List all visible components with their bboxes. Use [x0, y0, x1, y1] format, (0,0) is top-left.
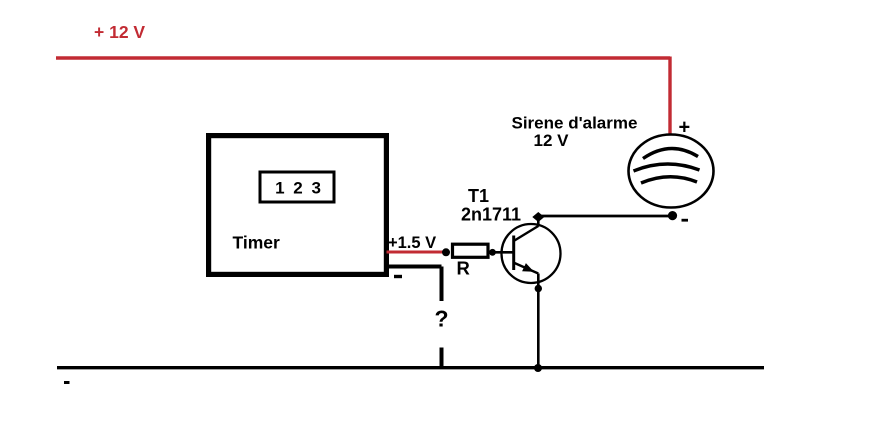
- wire emitter to ground rail: [537, 274, 540, 369]
- node collector junction: [532, 212, 544, 222]
- siren LS1: [629, 135, 714, 208]
- svg-text:R: R: [457, 258, 470, 279]
- label - (rail): [64, 381, 70, 384]
- svg-text:+1.5 V: +1.5 V: [388, 234, 436, 252]
- node resistor right: [489, 249, 496, 256]
- wire collector up: [537, 217, 540, 227]
- timer box U1: [209, 136, 387, 275]
- svg-text:?: ?: [435, 306, 449, 332]
- svg-text:T1: T1: [468, 186, 489, 206]
- node resistor left: [442, 248, 450, 256]
- svg-text:+: +: [679, 117, 691, 139]
- resistor R: [453, 244, 489, 257]
- wire +12V rail (red): [56, 57, 670, 135]
- svg-text:2n1711: 2n1711: [461, 205, 521, 225]
- wire ground rail: [57, 366, 764, 369]
- timer display box: [260, 172, 334, 202]
- node emitter at rail: [534, 364, 542, 372]
- node siren minus terminal: [668, 211, 677, 220]
- wire collector to siren: [538, 215, 672, 218]
- svg-text:Timer: Timer: [233, 233, 281, 253]
- transistor T1: [502, 224, 561, 283]
- wire ? to rail: [440, 348, 444, 369]
- node emitter: [535, 285, 542, 292]
- wire resistor to base: [492, 251, 513, 254]
- label - (timer): [394, 275, 402, 278]
- svg-text:Sirene d'alarme: Sirene d'alarme: [512, 114, 638, 133]
- wire timer output (red): [387, 251, 447, 254]
- wire timer minus output: [388, 267, 442, 302]
- svg-text:12 V: 12 V: [534, 131, 570, 150]
- label - (siren): [682, 219, 689, 222]
- svg-text:+ 12 V: + 12 V: [94, 22, 145, 42]
- svg-text:1 2 3: 1 2 3: [275, 179, 323, 198]
